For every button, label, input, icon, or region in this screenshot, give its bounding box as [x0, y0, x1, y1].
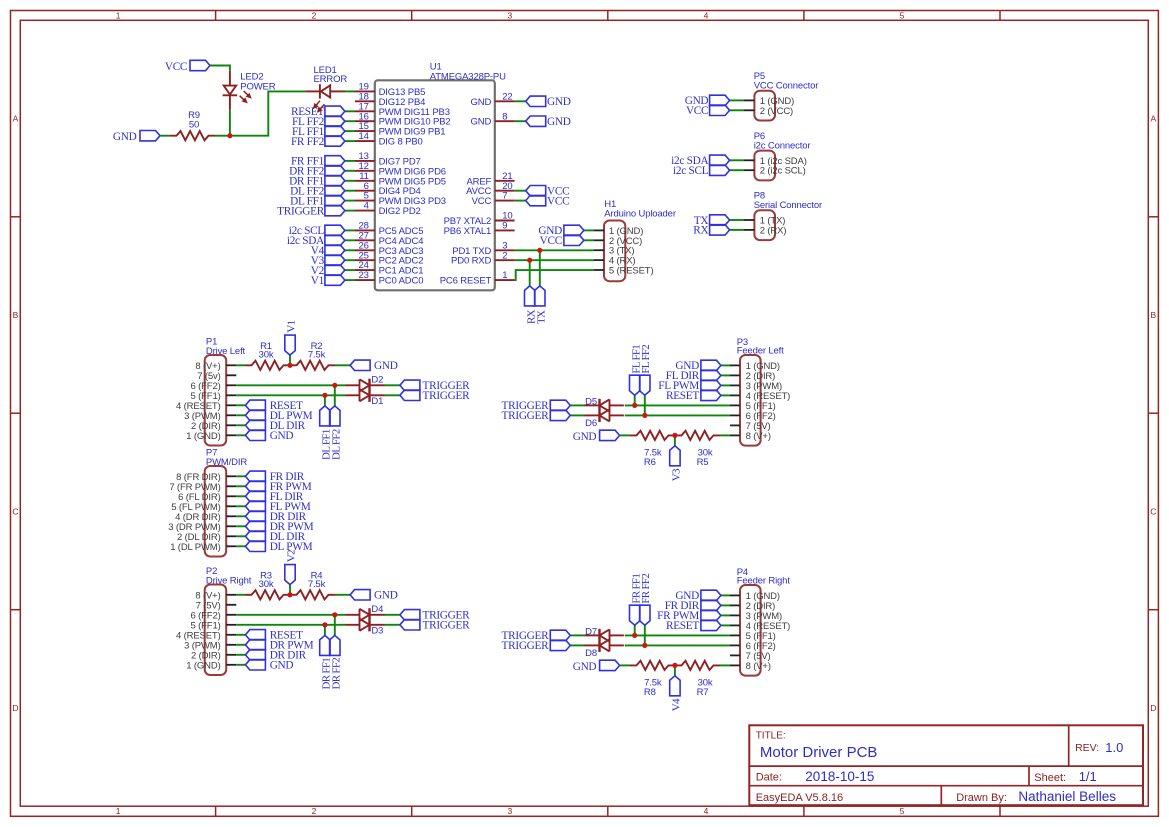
svg-text:1 (DL PWM): 1 (DL PWM): [170, 542, 220, 553]
svg-text:R5: R5: [697, 457, 709, 468]
svg-text:D5: D5: [585, 397, 597, 408]
svg-text:1/1: 1/1: [1079, 769, 1097, 784]
svg-text:A: A: [13, 114, 19, 124]
svg-text:5: 5: [900, 806, 905, 816]
svg-text:4: 4: [704, 10, 709, 20]
svg-text:1 (GND): 1 (GND): [186, 431, 220, 442]
svg-text:VCC: VCC: [165, 61, 187, 73]
svg-text:TRIGGER: TRIGGER: [502, 640, 550, 652]
svg-text:A: A: [1151, 114, 1157, 124]
svg-text:D: D: [1150, 703, 1156, 713]
svg-text:D6: D6: [585, 418, 597, 429]
svg-text:DIG2 PD2: DIG2 PD2: [379, 206, 421, 217]
svg-text:Drive Right: Drive Right: [206, 575, 252, 586]
svg-text:V1: V1: [286, 320, 298, 332]
svg-text:FR FF2: FR FF2: [640, 574, 652, 604]
svg-text:GND: GND: [270, 430, 294, 442]
svg-text:2018-10-15: 2018-10-15: [805, 769, 874, 784]
svg-text:1: 1: [116, 806, 121, 816]
svg-text:7.5k: 7.5k: [308, 349, 326, 360]
svg-text:V2: V2: [286, 550, 298, 562]
svg-text:EasyEDA V5.8.16: EasyEDA V5.8.16: [756, 792, 843, 804]
svg-text:Date:: Date:: [756, 771, 782, 783]
svg-text:C: C: [12, 507, 18, 517]
svg-text:1: 1: [116, 10, 121, 20]
svg-text:1.0: 1.0: [1105, 740, 1123, 755]
svg-text:V1: V1: [311, 275, 324, 287]
svg-text:V3: V3: [671, 468, 683, 481]
svg-text:i2c SCL: i2c SCL: [673, 165, 709, 177]
svg-text:FR FF2: FR FF2: [291, 136, 325, 148]
svg-text:D8: D8: [585, 648, 597, 659]
svg-text:Serial Connector: Serial Connector: [754, 200, 822, 211]
svg-text:1 (GND): 1 (GND): [186, 660, 220, 671]
svg-text:1: 1: [502, 270, 507, 281]
svg-text:GND: GND: [471, 97, 492, 108]
svg-text:2: 2: [312, 10, 317, 20]
svg-text:Drive Left: Drive Left: [206, 346, 246, 357]
svg-text:5: 5: [900, 10, 905, 20]
svg-text:GND: GND: [374, 590, 398, 602]
svg-text:D4: D4: [371, 604, 383, 615]
svg-text:50: 50: [189, 120, 199, 131]
svg-text:TRIGGER: TRIGGER: [277, 205, 325, 217]
svg-text:GND: GND: [573, 431, 597, 443]
svg-text:i2c Connector: i2c Connector: [754, 140, 811, 151]
svg-text:7: 7: [502, 191, 507, 202]
svg-text:2: 2: [312, 806, 317, 816]
svg-text:ERROR: ERROR: [314, 74, 348, 85]
svg-text:22: 22: [502, 91, 512, 102]
svg-text:VCC Connector: VCC Connector: [754, 80, 819, 91]
svg-text:Drawn By:: Drawn By:: [956, 792, 1007, 804]
svg-text:VCC: VCC: [472, 196, 492, 207]
svg-text:9: 9: [502, 221, 507, 232]
svg-text:8 (V+): 8 (V+): [746, 431, 771, 442]
svg-text:23: 23: [359, 270, 369, 281]
svg-text:7.5k: 7.5k: [308, 579, 326, 590]
svg-text:GND: GND: [270, 660, 294, 672]
svg-text:C: C: [1150, 507, 1156, 517]
svg-text:4: 4: [704, 806, 709, 816]
svg-text:30k: 30k: [259, 579, 274, 590]
svg-text:GND: GND: [471, 117, 492, 128]
svg-text:GND: GND: [113, 131, 137, 143]
svg-text:Sheet:: Sheet:: [1034, 772, 1066, 784]
svg-text:Feeder Left: Feeder Left: [737, 346, 784, 357]
svg-text:V4: V4: [671, 698, 683, 711]
svg-text:FL FF2: FL FF2: [640, 345, 652, 374]
svg-text:30k: 30k: [259, 349, 274, 360]
svg-text:RX: RX: [693, 225, 708, 237]
svg-text:PB6 XTAL1: PB6 XTAL1: [444, 226, 492, 237]
svg-text:R7: R7: [697, 687, 709, 698]
svg-text:PWM/DIR: PWM/DIR: [206, 457, 247, 468]
svg-text:2: 2: [502, 250, 507, 261]
svg-text:PC0 ADC0: PC0 ADC0: [379, 276, 424, 287]
svg-text:Motor Driver PCB: Motor Driver PCB: [760, 744, 878, 761]
svg-text:DIG 8 PB0: DIG 8 PB0: [379, 137, 423, 148]
svg-text:8 (V+): 8 (V+): [746, 661, 771, 672]
svg-text:GND: GND: [547, 116, 571, 128]
svg-text:B: B: [13, 310, 19, 320]
svg-text:GND: GND: [547, 96, 571, 108]
svg-text:TITLE:: TITLE:: [756, 731, 786, 742]
svg-text:VCC: VCC: [547, 195, 569, 207]
svg-text:TRIGGER: TRIGGER: [423, 390, 471, 402]
svg-text:D2: D2: [371, 375, 383, 386]
svg-text:R6: R6: [644, 457, 656, 468]
svg-text:TRIGGER: TRIGGER: [423, 620, 471, 632]
svg-text:2 (RX): 2 (RX): [760, 225, 787, 236]
svg-text:R8: R8: [644, 687, 656, 698]
svg-text:VCC: VCC: [540, 235, 562, 247]
svg-text:D1: D1: [371, 396, 383, 407]
svg-text:GND: GND: [573, 661, 597, 673]
svg-text:Feeder Right: Feeder Right: [737, 576, 791, 587]
svg-text:5 (RESET): 5 (RESET): [609, 266, 654, 277]
svg-text:TRIGGER: TRIGGER: [502, 410, 550, 422]
svg-text:RESET: RESET: [666, 620, 699, 632]
svg-text:3: 3: [508, 10, 513, 20]
svg-text:2 (VCC): 2 (VCC): [760, 106, 793, 117]
svg-text:14: 14: [359, 131, 369, 142]
svg-text:VCC: VCC: [686, 105, 708, 117]
svg-text:Nathaniel Belles: Nathaniel Belles: [1018, 789, 1116, 804]
svg-text:2 (i2c SCL): 2 (i2c SCL): [760, 166, 806, 177]
svg-text:4: 4: [364, 201, 369, 212]
svg-text:GND: GND: [374, 360, 398, 372]
svg-text:3: 3: [508, 806, 513, 816]
svg-text:RESET: RESET: [666, 390, 699, 402]
svg-text:PC6 RESET: PC6 RESET: [440, 276, 492, 287]
svg-text:D7: D7: [585, 627, 597, 638]
svg-text:D: D: [12, 703, 18, 713]
svg-text:B: B: [1151, 310, 1157, 320]
svg-text:TX: TX: [536, 310, 548, 324]
svg-text:DR FF2: DR FF2: [330, 658, 342, 690]
svg-text:D3: D3: [371, 625, 383, 636]
svg-text:REV:: REV:: [1075, 742, 1099, 754]
svg-text:Arduino Uploader: Arduino Uploader: [604, 208, 676, 219]
svg-text:ATMEGA328P-PU: ATMEGA328P-PU: [430, 71, 506, 82]
svg-text:DL FF2: DL FF2: [330, 429, 342, 460]
svg-text:PD0 RXD: PD0 RXD: [451, 256, 491, 267]
svg-text:8: 8: [502, 111, 507, 122]
